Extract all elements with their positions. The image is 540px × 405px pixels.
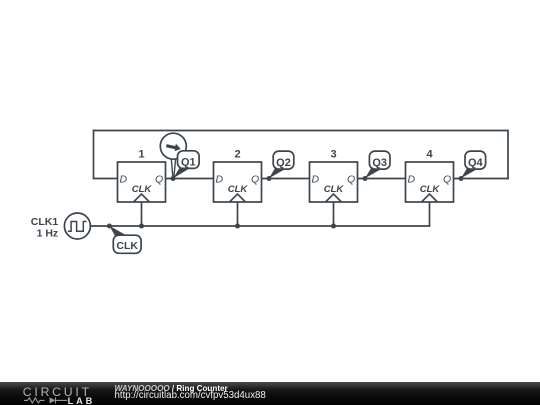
flip-flop U1 bbox=[118, 148, 166, 202]
wire Q1 to D2 bbox=[166, 178, 214, 180]
flag Q1 bbox=[173, 151, 199, 179]
svg-text:http://circuitlab.com/cvfpv53d: http://circuitlab.com/cvfpv53d4ux88 bbox=[115, 390, 266, 401]
wire CLK riser U2 bbox=[237, 202, 239, 226]
clock source CLK1 1 Hz bbox=[31, 213, 91, 240]
svg-text:D: D bbox=[120, 174, 128, 186]
node dot CLK junction U3 bbox=[331, 224, 336, 229]
node dot Q4 bbox=[459, 176, 464, 181]
svg-text:1: 1 bbox=[138, 148, 144, 160]
svg-text:D: D bbox=[312, 174, 320, 186]
wire CLK riser U1 bbox=[141, 202, 143, 226]
wire CLK riser U3 bbox=[333, 202, 335, 226]
svg-text:Q: Q bbox=[443, 174, 451, 186]
svg-text:CLK1: CLK1 bbox=[31, 216, 59, 228]
svg-text:1 Hz: 1 Hz bbox=[37, 228, 59, 240]
svg-text:Q2: Q2 bbox=[276, 157, 291, 169]
wire feedback left vertical bbox=[93, 130, 95, 179]
node dot CLK tap bbox=[107, 224, 112, 229]
flag Q4 bbox=[461, 151, 486, 178]
svg-text:Q4: Q4 bbox=[468, 157, 484, 169]
node dot Q1 bbox=[171, 176, 176, 181]
wire Q4 output to right vertical bbox=[454, 178, 509, 180]
wire Q2 to D3 bbox=[262, 178, 310, 180]
node dot CLK junction U2 bbox=[235, 224, 240, 229]
wire feedback top rail bbox=[94, 130, 509, 132]
scope probe on Q1 bbox=[160, 133, 186, 178]
svg-text:CLK: CLK bbox=[420, 184, 441, 195]
svg-text:Q1: Q1 bbox=[181, 156, 196, 168]
svg-text:2: 2 bbox=[234, 148, 240, 160]
svg-text:CLK: CLK bbox=[228, 184, 249, 195]
wire Q3 to D4 bbox=[358, 178, 406, 180]
svg-text:Q: Q bbox=[251, 174, 259, 186]
svg-text:LAB: LAB bbox=[68, 396, 96, 405]
wire D input of U1 bbox=[93, 178, 118, 180]
svg-text:3: 3 bbox=[330, 148, 336, 160]
svg-text:Q3: Q3 bbox=[372, 157, 387, 169]
svg-text:D: D bbox=[216, 174, 224, 186]
svg-text:Q: Q bbox=[347, 174, 355, 186]
wire CLK riser U4 bbox=[429, 202, 431, 227]
wire clock rail bbox=[90, 225, 429, 227]
flip-flop U2 bbox=[214, 148, 262, 202]
svg-text:CLK: CLK bbox=[324, 184, 345, 195]
svg-text:Q: Q bbox=[155, 174, 163, 186]
flag CLK bbox=[109, 226, 141, 254]
svg-text:CLK: CLK bbox=[132, 184, 153, 195]
flip-flop U3 bbox=[310, 148, 358, 202]
wire feedback right vertical bbox=[507, 130, 509, 180]
svg-text:4: 4 bbox=[426, 148, 433, 160]
svg-text:CLK: CLK bbox=[116, 240, 138, 252]
node dot Q2 bbox=[267, 176, 272, 181]
CircuitLab logo resistor and diode bbox=[24, 397, 67, 403]
svg-text:D: D bbox=[408, 174, 416, 186]
flip-flop U4 bbox=[406, 148, 454, 202]
flag Q3 bbox=[365, 151, 390, 178]
node dot Q3 bbox=[363, 176, 368, 181]
node dot CLK junction U1 bbox=[139, 224, 144, 229]
flag Q2 bbox=[269, 151, 294, 178]
